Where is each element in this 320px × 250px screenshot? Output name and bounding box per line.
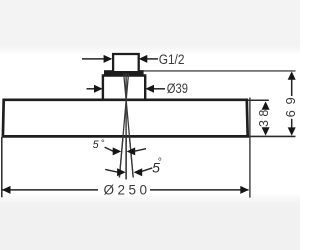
shower plate (3, 100, 248, 137)
5deg pair 2 leader right (142, 168, 153, 172)
extension line top-right (plate top, for 38 dim) (246, 99, 269, 101)
38 arrow bottom (points down) (262, 127, 270, 135)
5deg pair 2 arrow left (points right) (117, 168, 126, 176)
ball housing (103, 76, 145, 99)
dia250 dim line left segment (2, 189, 98, 191)
G1/2 dimension leader left (82, 58, 111, 60)
G1/2 arrow left (points right) (104, 55, 113, 63)
5deg pair 1 leader right (135, 149, 146, 152)
connector (G1/2 nipple) (113, 54, 139, 71)
dia39 arrow right (points left) (145, 85, 154, 93)
flange bar (104, 70, 144, 75)
38 arrow top (points up) (262, 101, 270, 109)
dia39 leader right (154, 88, 165, 90)
G1/2 arrow right (points left) (139, 55, 148, 63)
svg-text:°: ° (101, 138, 105, 149)
extension line bottom (plate bottom, for 38/69 dims) (246, 135, 296, 137)
5deg pair 1 arrow right (points left) (127, 147, 136, 155)
5deg pair 1 arrow left (points right) (113, 147, 122, 155)
5deg pair 2 arrow right (points left) (134, 168, 143, 176)
dia250 extension line right (249, 98, 251, 198)
svg-text:5: 5 (93, 139, 100, 151)
69 dim vertical line (291, 79, 293, 97)
spray lines through ball (redrawn over white fill) (125, 73, 127, 180)
svg-text:°: ° (157, 156, 161, 168)
dia39 arrow left (points right) (94, 85, 103, 93)
5deg pair 1 : leader from label (105, 147, 114, 151)
dia250 arrow left (points left) (2, 186, 11, 194)
centerline (125, 73, 127, 180)
dia39 leader left (87, 88, 102, 90)
G1/2 leader right (147, 58, 158, 60)
svg-text:Ø39: Ø39 (167, 81, 188, 96)
svg-text:G1/2: G1/2 (159, 52, 185, 67)
69 arrow bottom (points down) (288, 127, 296, 135)
69 arrow top (points up) (288, 71, 296, 79)
extension line top (flange level, for 69 dim) (140, 70, 296, 72)
dia250 extension line left (1, 137, 3, 197)
dia250 arrow right (points right) (240, 186, 249, 194)
5deg pair 2 leader left (105, 169, 118, 172)
spray axis tilted right 5 deg (124, 74, 134, 178)
dia250 dim line right segment (150, 189, 249, 191)
spray axis tilted left 5 deg (119, 74, 128, 178)
